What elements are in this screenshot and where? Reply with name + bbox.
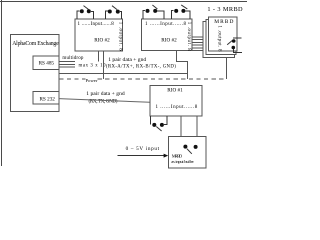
- wire RIO #2 left data drop 1: [98, 51, 100, 62]
- svg-text:MRBD: MRBD: [172, 153, 183, 158]
- box RS 485: [33, 56, 59, 70]
- bus RIO #2 right to MRBD (6 lines): [192, 37, 203, 51]
- wire RIO #2 left power drop: [102, 51, 104, 79]
- svg-text:AlphaCom Exchange: AlphaCom Exchange: [12, 41, 59, 47]
- MRBD stack back box: [203, 22, 234, 58]
- svg-text:RS 485: RS 485: [39, 61, 55, 67]
- svg-text:multidrop: multidrop: [62, 56, 84, 61]
- svg-text:(RX-A/TX+, RX-B/TX-, GND): (RX-A/TX+, RX-B/TX-, GND): [106, 65, 176, 70]
- svg-text:RIO #2: RIO #2: [161, 38, 177, 44]
- power dashed line right part: [98, 78, 227, 80]
- svg-text:RS 232: RS 232: [39, 97, 55, 103]
- svg-text:1 - 3 MRBD: 1 - 3 MRBD: [207, 6, 243, 13]
- switch S5 below RIO #1: [150, 116, 167, 131]
- svg-text:Power: Power: [86, 78, 98, 83]
- svg-text:RIO #2: RIO #2: [94, 38, 110, 44]
- switch S1 above RIO #2 left: [77, 6, 93, 19]
- switch S2 above RIO #2 left: [105, 6, 121, 19]
- wire RIO #1 to MRBD buffer 1: [180, 116, 182, 146]
- svg-text:1 ......Input......8: 1 ......Input......8: [156, 105, 198, 110]
- svg-text:MRBD: MRBD: [214, 19, 233, 25]
- svg-text:1 ......Input......8: 1 ......Input......8: [78, 22, 115, 27]
- svg-text:1 pair data + gnd: 1 pair data + gnd: [108, 57, 146, 63]
- switch S4 above RIO #2 right: [171, 5, 190, 19]
- power dashed line left part: [59, 78, 85, 80]
- wire 0-5V input arrow: [118, 155, 165, 157]
- box RIO #2 right: [142, 19, 193, 51]
- box RS 232: [33, 92, 59, 104]
- MRBD stack front box: [209, 17, 237, 51]
- svg-text:0 – 5V input: 0 – 5V input: [126, 146, 160, 152]
- multidrop bus line 3: [59, 66, 75, 68]
- box AlphaCom Exchange: [11, 35, 59, 112]
- svg-text:1 ......Input......8: 1 ......Input......8: [145, 22, 187, 27]
- MRBD stack middle box: [206, 19, 236, 54]
- svg-text:1 .output. 8: 1 .output. 8: [217, 26, 222, 53]
- svg-text:as input buffer: as input buffer: [171, 159, 194, 164]
- svg-text:1 .output. 8: 1 .output. 8: [118, 22, 123, 52]
- wire RIO #2 right power step: [176, 51, 187, 79]
- multidrop bus line 2: [59, 63, 75, 65]
- switch S3 above RIO #2 right: [143, 5, 164, 19]
- svg-text:RIO #1: RIO #1: [167, 88, 183, 94]
- wire MRBD power riser: [225, 57, 227, 79]
- wire RIO #1 to MRBD buffer 2: [196, 116, 198, 146]
- svg-text:max 3 x 10: max 3 x 10: [79, 64, 107, 69]
- wire RS 232 to RIO #1: [59, 99, 150, 103]
- box RIO #1: [150, 85, 202, 116]
- svg-text:1 pair data + gnd: 1 pair data + gnd: [86, 91, 125, 97]
- box MRBD input buffer: [168, 137, 206, 168]
- box RIO #2 left: [75, 19, 123, 51]
- MRBD relay contact switch: [233, 37, 242, 39]
- svg-text:1 .output. 8: 1 .output. 8: [186, 22, 191, 52]
- buffer switch contacts: [187, 149, 192, 154]
- multidrop bus line 1: [59, 61, 75, 63]
- multidrop trunk line: [59, 73, 187, 75]
